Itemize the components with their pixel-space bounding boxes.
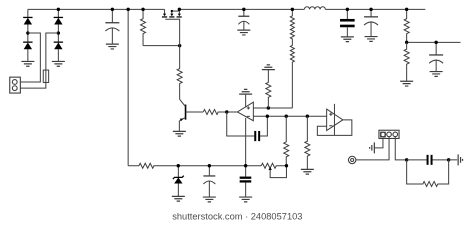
- junction R9 top: [405, 8, 408, 11]
- resistor R6 (inverting line down to pot): [284, 116, 289, 166]
- node zener: [177, 164, 180, 167]
- ground below R7: [301, 169, 314, 174]
- wire left bus down to bottom rail: [127, 9, 129, 165]
- capacitor C1 (polarized, after bridge): [105, 9, 119, 44]
- diode D4 (second chain, lower): [54, 33, 63, 61]
- node output cap left: [405, 158, 408, 161]
- wire top rail left segment: [28, 8, 165, 10]
- junction rail at second chain: [57, 8, 60, 11]
- resistor R1 (gate pull-up, vertical at x=142.7): [141, 9, 146, 45]
- wire gate node horizontal: [143, 45, 180, 47]
- op-amp U1 (mirrored, output left): [237, 95, 326, 121]
- node gate: [178, 44, 181, 47]
- ground below C1: [106, 44, 119, 49]
- ground below C8: [430, 72, 443, 77]
- wire R3 to op-amp output: [218, 111, 238, 113]
- ground (rotated right) output: [458, 154, 462, 165]
- capacitor C3 (polarized, low rail): [203, 166, 215, 197]
- ground below C4: [239, 197, 252, 202]
- node C8: [434, 41, 437, 44]
- zener diode VD1: [173, 166, 184, 197]
- wire low rail: [154, 165, 262, 167]
- ground below C5: [237, 30, 250, 35]
- diode D2 (left chain, lower): [23, 33, 32, 61]
- fuse F1: [43, 70, 48, 82]
- resistor R4 (reference leg): [266, 70, 271, 108]
- resistor R3 (base resistor): [203, 109, 218, 114]
- junction left bus: [126, 8, 129, 11]
- wire AC1 to plug upper pin: [20, 33, 40, 82]
- resistor R8 (low rail series): [139, 163, 154, 168]
- transistor Q1 (pass MOSFET): [162, 9, 182, 45]
- node pot right terminal: [285, 164, 288, 167]
- resistor R9 (upper output divider): [404, 9, 409, 42]
- resistor R2 (collector feed, vertical at x=179.3): [177, 46, 182, 100]
- wire J1 pin1 to ground: [375, 138, 383, 147]
- junction R1 top: [141, 8, 144, 11]
- junction rail at MOSFET drain: [178, 8, 181, 11]
- node output tap: [405, 41, 408, 44]
- plug X1 (AC mains): [10, 77, 21, 93]
- jack X2: [348, 156, 355, 163]
- node inv line at R7: [306, 115, 309, 118]
- wire top rail right segment: [179, 8, 304, 10]
- capacitor C5 (polarized, on rail x=243.5): [238, 9, 249, 30]
- ground below R10: [400, 81, 413, 86]
- ground below D4: [52, 61, 65, 66]
- ground below C6: [341, 37, 354, 42]
- resistor R7 (inverting line to ground): [305, 116, 310, 169]
- ground below C3: [203, 197, 216, 202]
- capacitor C6 (ceramic after inductor): [340, 9, 355, 36]
- node C2 at inverting line: [266, 115, 269, 118]
- resistor R11 (parallel with C9): [407, 160, 449, 187]
- node C4: [244, 164, 247, 167]
- diode D3 (second chain, upper): [54, 9, 63, 33]
- bottom rail: corner and wire: [128, 165, 139, 167]
- resistor R10 (lower output divider): [404, 42, 409, 81]
- transistor Q2 (NPN error amp): [179, 99, 203, 131]
- diode D1 (top left chain, upper): [23, 9, 32, 33]
- connector J1 (3-pin header): [379, 130, 399, 138]
- capacitor C9 (output coupling): [407, 155, 449, 165]
- ground below Q2 emitter: [173, 131, 186, 136]
- svg-text:shutterstock.com · 2408057103: shutterstock.com · 2408057103: [172, 211, 302, 221]
- flipped ground above U1: [239, 89, 252, 94]
- junction C5: [242, 8, 245, 11]
- flipped ground above R4: [262, 65, 275, 70]
- inductor L1: [304, 7, 325, 10]
- ground below D2: [21, 61, 34, 66]
- ground (rotated left) at J1: [370, 142, 375, 153]
- node AC2: [57, 31, 60, 34]
- wire J1 pin3 to output node: [395, 137, 406, 160]
- wire AC2 to fuse: [46, 33, 59, 70]
- wire U1 V- pin down to low rail: [245, 118, 247, 166]
- wire fuse to plug lower pin: [20, 82, 45, 88]
- capacitor C2 (feedback): [227, 112, 268, 141]
- wire to rotated ground right: [449, 159, 458, 161]
- junction R5 top: [291, 8, 294, 11]
- node base/output: [225, 110, 228, 113]
- node C3: [208, 164, 211, 167]
- resistor R5 (upper divider, from top rail): [290, 9, 294, 108]
- potentiometer RP1: [261, 163, 286, 177]
- node AC1: [26, 31, 29, 34]
- node output cap right: [447, 158, 450, 161]
- node divider at noninverting line: [267, 106, 270, 109]
- junction C6: [346, 8, 349, 11]
- capacitor C8 (polarized at x=435.8): [429, 42, 443, 71]
- wire top rail after inductor: [325, 8, 425, 10]
- junction C7: [369, 8, 372, 11]
- capacitor C7 (polarized at x=370.7): [364, 9, 378, 36]
- capacitor C4 (ceramic at U1 supply): [240, 166, 252, 197]
- ground below zener: [172, 196, 185, 201]
- ground below C7: [365, 37, 378, 42]
- op-amp U2 (voltage follower): [317, 104, 352, 136]
- junction C1: [111, 8, 114, 11]
- node inv line at R6: [285, 115, 288, 118]
- wire output tap: [407, 41, 461, 43]
- wire J1 pin2 down to jack line: [356, 137, 389, 160]
